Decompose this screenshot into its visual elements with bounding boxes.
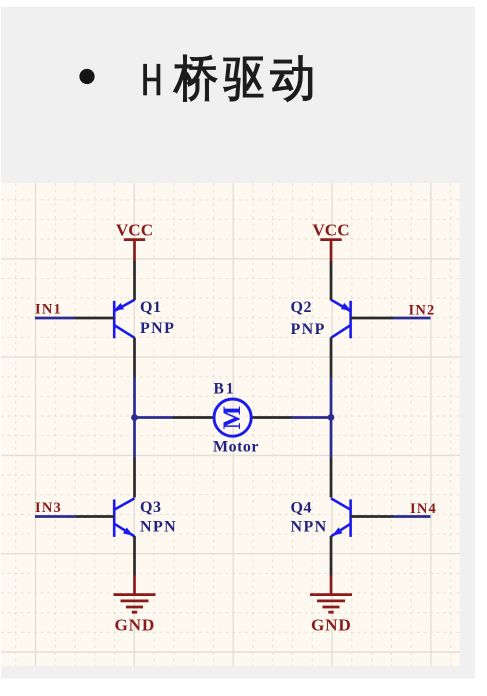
transistor Q4: [291, 498, 351, 537]
svg-text:IN1: IN1: [35, 302, 62, 318]
svg-text:PNP: PNP: [291, 321, 326, 338]
wire VCC-right to Q2 emitter: [330, 261, 333, 300]
wire Q2 base to IN2: [351, 317, 393, 320]
transistor Q2: [291, 299, 352, 339]
svg-text:GND: GND: [115, 616, 156, 635]
wire right mid vertical (blue net): [330, 378, 333, 458]
title bullet: [79, 69, 94, 84]
svg-text:IN3: IN3: [35, 500, 62, 516]
svg-text:M: M: [219, 406, 246, 430]
wire Q1 collector down: [133, 338, 136, 378]
wire motor to node-right (black then blue): [252, 416, 332, 419]
svg-text:PNP: PNP: [140, 320, 175, 337]
transistor Q3: [114, 498, 177, 537]
ground GND right: [310, 575, 352, 635]
svg-text:B1: B1: [214, 380, 236, 397]
port IN1: [35, 302, 76, 318]
motor B1: [213, 380, 259, 455]
wire left mid vertical (blue net): [133, 378, 136, 458]
wire Q4 emitter to GND: [330, 536, 333, 576]
svg-text:Q3: Q3: [140, 499, 162, 516]
svg-text:NPN: NPN: [291, 518, 328, 535]
wire Q2 collector down: [330, 338, 333, 378]
svg-text:GND: GND: [311, 616, 352, 635]
svg-text:IN2: IN2: [409, 303, 436, 319]
wire IN3 to Q3 base: [76, 515, 115, 518]
port IN4: [393, 501, 437, 517]
svg-text:Q4: Q4: [291, 500, 313, 517]
svg-text:Q2: Q2: [291, 299, 313, 316]
svg-text:IN4: IN4: [410, 501, 437, 517]
ground GND left: [114, 575, 156, 635]
junction node left: [131, 414, 138, 421]
wire Q3 emitter to GND: [133, 536, 136, 576]
svg-text:VCC: VCC: [116, 221, 153, 240]
title text H桥驱动: [143, 55, 312, 102]
svg-text:Q1: Q1: [140, 299, 162, 316]
port IN3: [35, 500, 76, 516]
wire Q4 base to IN4: [351, 515, 393, 518]
wire VCC-left to Q1 emitter: [133, 261, 136, 300]
wire left node to Q3 collector: [133, 457, 136, 498]
junction node right: [328, 414, 335, 421]
wire IN1 to Q1 base: [76, 317, 115, 320]
wire node-left to motor (blue then black): [135, 416, 214, 419]
port IN2: [393, 303, 435, 319]
svg-text:VCC: VCC: [312, 221, 349, 240]
power VCC right: [312, 221, 349, 262]
power VCC left: [116, 221, 153, 262]
wire right node to Q4 collector: [330, 457, 333, 498]
transistor Q1: [113, 299, 175, 339]
svg-text:Motor: Motor: [213, 438, 259, 455]
svg-text:NPN: NPN: [140, 518, 177, 535]
